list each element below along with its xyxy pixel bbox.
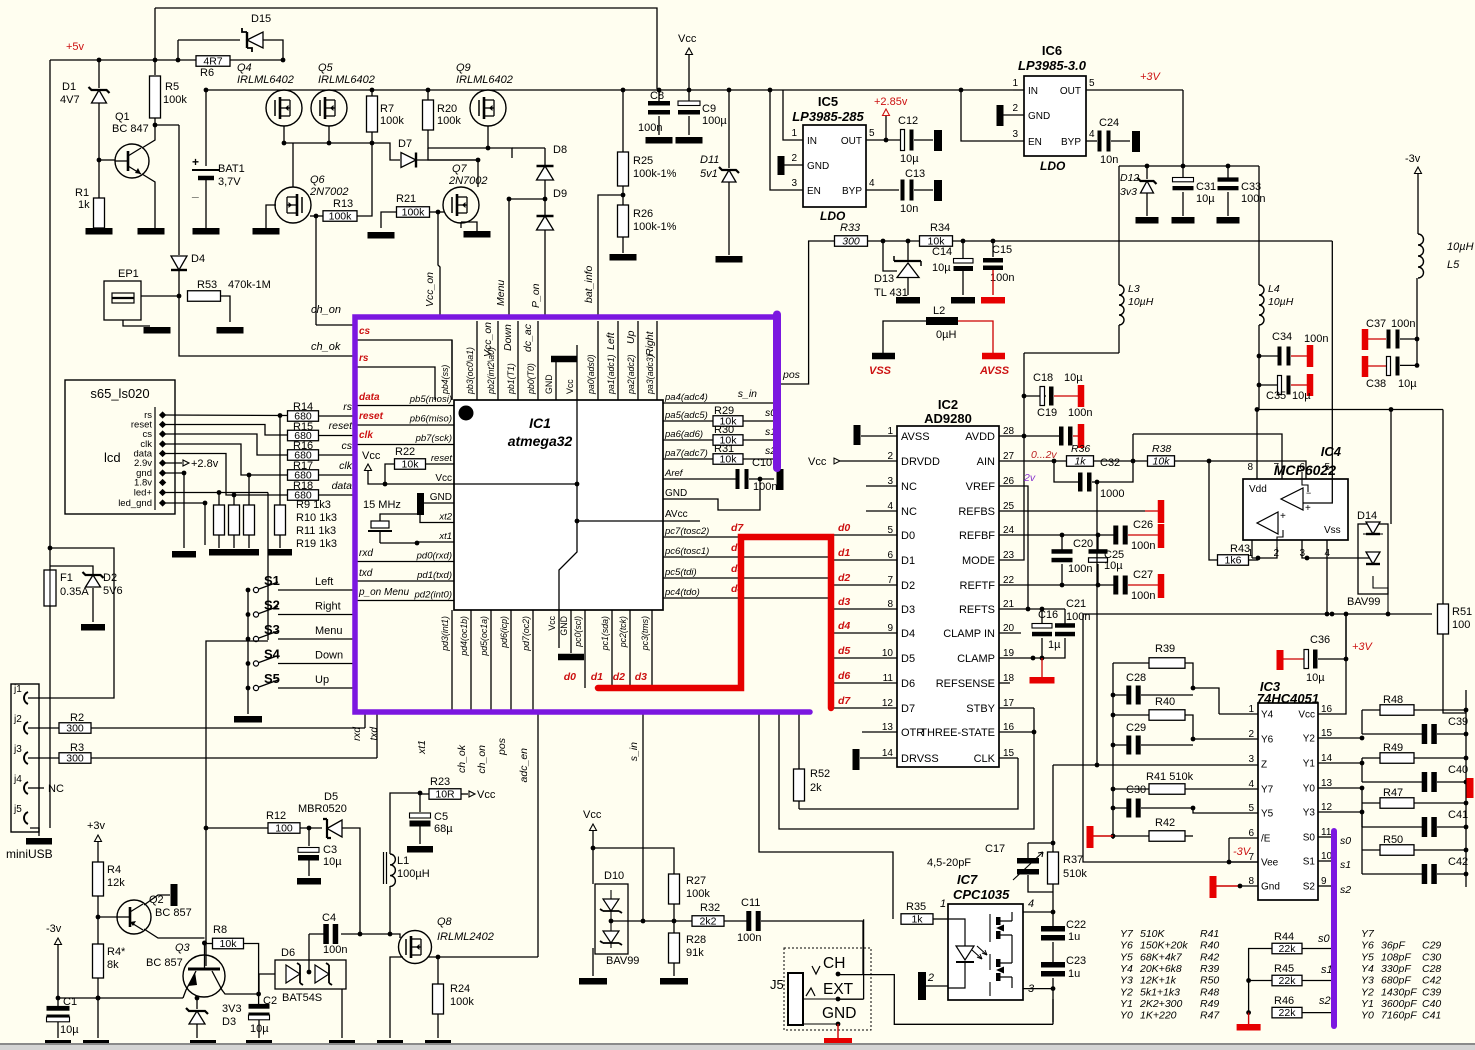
svg-text:Z: Z [1261, 760, 1267, 771]
svg-text:C41: C41 [1422, 1010, 1441, 1022]
svg-text:p_on Menu: p_on Menu [358, 587, 409, 598]
wire pb3 column Vcc_on [476, 321, 478, 400]
svg-text:D13: D13 [874, 273, 894, 285]
IC2 pin17 STBY [999, 707, 1034, 709]
svg-text:3V3: 3V3 [222, 1003, 242, 1015]
wire Z row to trimmer node [1052, 765, 1054, 843]
svg-text:74HC4051: 74HC4051 [1257, 691, 1319, 706]
capacitor C18 10u [1024, 395, 1046, 397]
svg-text:F1: F1 [60, 572, 73, 584]
svg-text:1K+220: 1K+220 [1140, 1010, 1177, 1022]
svg-text:reset: reset [329, 420, 353, 432]
wire adc_en riser to STBY [779, 708, 1034, 829]
wire R49/C40 node [1362, 757, 1380, 759]
svg-text:2k: 2k [810, 782, 822, 794]
svg-text:1k: 1k [78, 199, 90, 211]
wire switch common [247, 590, 249, 714]
wire L1 to R23 node [389, 886, 391, 934]
wire d2 to IC2 [831, 584, 897, 586]
wire dc_ac riser [759, 713, 893, 919]
ground D6 [329, 1040, 355, 1047]
svg-text:xt2: xt2 [438, 512, 452, 523]
wire xt1/R52 to CLK [799, 758, 1018, 809]
IC6 pin5 OUT +3V [1086, 89, 1183, 91]
svg-text:10n: 10n [1100, 154, 1118, 166]
svg-text:12K+1k: 12K+1k [1140, 975, 1177, 987]
svg-text:NC: NC [901, 481, 917, 493]
resistor R2 300 from j2 [28, 727, 59, 729]
wire Q9 node down Menu/D8 [428, 148, 478, 160]
IC1 atmega32 box [454, 400, 663, 610]
svg-text:pa5(adc5): pa5(adc5) [664, 410, 708, 421]
wire Vee pin7 [1229, 861, 1258, 863]
wire IC3 S0 pin11 [1318, 836, 1334, 838]
svg-text:4V7: 4V7 [60, 94, 80, 106]
wire Vcc_on from R21 node [438, 212, 440, 317]
wire j1 to F1 node [28, 548, 114, 698]
svg-text:DRVSS: DRVSS [901, 753, 939, 765]
svg-text:data: data [332, 480, 353, 492]
svg-text:pa3(adc3): pa3(adc3) [645, 354, 655, 395]
svg-text:pb0(T0): pb0(T0) [526, 363, 536, 395]
wire AVDD rail riser [1023, 343, 1025, 345]
wire pd6 column pos [510, 610, 512, 712]
svg-text:R24: R24 [450, 983, 470, 995]
ground C1 [45, 1040, 71, 1047]
svg-text:10µ: 10µ [932, 262, 951, 274]
svg-text:R9 1k3: R9 1k3 [296, 499, 331, 511]
svg-text:R21: R21 [396, 193, 416, 205]
resistor R26 100k-1% [618, 205, 629, 237]
ground R21 [368, 232, 395, 239]
svg-text:+: + [1305, 503, 1311, 514]
wire Q3 emitter rail to D6 [259, 974, 275, 994]
bar GND pin IC1 left [417, 493, 424, 515]
wire to IC4 pin7 feedback [1133, 434, 1282, 479]
inductor L5 10uH [1418, 234, 1424, 278]
red bar C27 [1158, 574, 1165, 598]
svg-text:R4*: R4* [107, 946, 126, 958]
svg-text:MBR0520: MBR0520 [298, 803, 347, 815]
svg-text:Y3: Y3 [1120, 975, 1133, 987]
svg-text:AD9280: AD9280 [924, 411, 972, 426]
svg-text:2v: 2v [1023, 472, 1036, 484]
wire Z row [1053, 764, 1258, 766]
svg-text:R41: R41 [1200, 928, 1219, 940]
svg-text:rs: rs [343, 401, 352, 413]
svg-text:led_gnd: led_gnd [118, 498, 152, 509]
svg-text:s1: s1 [1321, 964, 1333, 976]
svg-text:5k1+1k3: 5k1+1k3 [1140, 986, 1180, 998]
svg-text:2N7002: 2N7002 [309, 186, 349, 198]
svg-text:5: 5 [869, 128, 875, 139]
svg-text:dc_ac: dc_ac [522, 323, 534, 352]
svg-text:12k: 12k [107, 877, 125, 889]
svg-text:100k: 100k [380, 115, 404, 127]
wire pd5 column ch_on [490, 610, 492, 712]
svg-text:10µ: 10µ [1306, 672, 1325, 684]
svg-text:CPC1035: CPC1035 [953, 887, 1010, 902]
svg-text:10µ: 10µ [1104, 560, 1123, 572]
svg-text:ch_on: ch_on [311, 304, 341, 316]
svg-text:pd7(oc2): pd7(oc2) [521, 616, 531, 652]
svg-text:pc5(tdi): pc5(tdi) [664, 567, 697, 578]
svg-text:100n: 100n [323, 944, 347, 956]
svg-text:L4: L4 [1268, 283, 1280, 295]
svg-text:Vss: Vss [1324, 525, 1341, 536]
svg-text:1k: 1k [1074, 456, 1086, 468]
svg-text:Y5: Y5 [1261, 809, 1274, 820]
svg-text:D1: D1 [62, 81, 76, 93]
svg-text:Gnd: Gnd [1261, 882, 1280, 893]
svg-text:4,5-20pF: 4,5-20pF [927, 857, 971, 869]
svg-text:txd: txd [369, 727, 380, 741]
bar GND bottom of IC1 [570, 610, 572, 653]
svg-text:68K+4k7: 68K+4k7 [1140, 951, 1183, 963]
svg-text:pa1(adc1): pa1(adc1) [606, 354, 616, 395]
svg-text:LP3985-3.0: LP3985-3.0 [1018, 58, 1087, 73]
svg-text:0.35A: 0.35A [60, 586, 89, 598]
inductor L4 10uH [1258, 166, 1260, 285]
resistor R20 100k [423, 100, 434, 130]
svg-text:IRLML6402: IRLML6402 [237, 74, 294, 86]
wire IC3 Y5 pin5 [1193, 808, 1258, 813]
svg-text:Vcc_on: Vcc_on [482, 322, 494, 357]
wire lcd led+ [165, 492, 268, 494]
junction D1/R1/Q1 base [97, 158, 102, 163]
svg-text:j5: j5 [13, 804, 22, 815]
svg-text:MODE: MODE [962, 555, 995, 567]
svg-text:D14: D14 [1357, 510, 1377, 522]
svg-text:D0: D0 [901, 530, 915, 542]
svg-text:C39: C39 [1422, 986, 1441, 998]
ground switches [234, 716, 262, 723]
svg-text:C10: C10 [752, 457, 772, 469]
svg-text:R38: R38 [1152, 443, 1171, 455]
wire pa1 column Left [617, 321, 619, 400]
svg-text:Down: Down [315, 650, 343, 662]
svg-text:IC7: IC7 [957, 872, 978, 887]
bar cap C6 to gnd [537, 512, 544, 533]
svg-text:REFBF: REFBF [959, 530, 995, 542]
svg-text:R39: R39 [1200, 963, 1219, 975]
svg-text:d7: d7 [838, 695, 851, 707]
svg-text:D7: D7 [901, 703, 915, 715]
svg-text:Vcc: Vcc [678, 33, 697, 45]
wire rxd column [364, 712, 366, 728]
svg-text:Q5: Q5 [318, 62, 334, 74]
ground C5 [407, 846, 433, 853]
resistor R3 300 from j3 [28, 757, 59, 759]
wire pc5 row d5 [663, 577, 831, 579]
svg-text:j3: j3 [13, 744, 22, 755]
svg-text:3v3: 3v3 [1120, 186, 1137, 198]
ground R19 [268, 549, 292, 556]
svg-text:IRLML2402: IRLML2402 [437, 931, 494, 943]
svg-text:pb7(sck): pb7(sck) [415, 433, 452, 444]
svg-text:C24: C24 [1099, 117, 1119, 129]
svg-text:d6: d6 [838, 670, 850, 682]
wire Vcc rail to IC6 IN [1013, 89, 1024, 91]
svg-text:d3: d3 [838, 596, 850, 608]
svg-text:R22: R22 [395, 446, 415, 458]
wire pa4 row s_in [663, 402, 779, 404]
svg-text:pc0(scl): pc0(scl) [573, 616, 583, 648]
ground R24 [425, 1040, 451, 1047]
resistor R37 510k [1048, 852, 1059, 884]
wire rxd row [357, 561, 454, 563]
svg-text:7: 7 [1273, 462, 1279, 473]
svg-text:IC1: IC1 [529, 415, 551, 431]
svg-text:j1: j1 [13, 684, 22, 695]
red ground C15 [981, 297, 1005, 304]
red bar AVSS [982, 353, 1005, 360]
svg-text:R49: R49 [1200, 998, 1219, 1010]
svg-text:CLAMP: CLAMP [957, 653, 995, 665]
svg-text:C21: C21 [1066, 598, 1086, 610]
svg-text:ch_on: ch_on [476, 745, 488, 774]
ground D10 [579, 978, 607, 985]
IC2 pin4 NC stub [866, 510, 897, 512]
svg-text:OUT: OUT [841, 136, 862, 147]
bar IC7 pin2 [918, 972, 926, 1000]
wire IC3 Y7 pin4 [1185, 788, 1258, 790]
svg-text:IC4: IC4 [1321, 444, 1342, 459]
svg-text:8: 8 [1247, 462, 1253, 473]
svg-text:C12: C12 [898, 115, 918, 127]
svg-text:BAV99: BAV99 [606, 955, 639, 967]
wire pc2 column d2 [629, 610, 631, 688]
bar C12 gnd [934, 130, 942, 151]
ground R28 [660, 978, 688, 985]
svg-text:2: 2 [1012, 103, 1018, 114]
bar C10 right [777, 469, 784, 490]
resistor R25 100k-1% [618, 152, 629, 186]
wire clk row pb7(sck) [357, 444, 454, 446]
svg-text:reset: reset [359, 411, 384, 422]
svg-text:R5: R5 [165, 81, 179, 93]
wire pos net to R33 [779, 241, 834, 384]
svg-text:10µ: 10µ [1064, 372, 1083, 384]
svg-text:pc7(tosc2): pc7(tosc2) [664, 526, 709, 537]
wire lcd clk to R17 [165, 444, 288, 475]
wire AVDD node down [999, 353, 1024, 560]
svg-text:d2: d2 [838, 572, 850, 584]
svg-text:cs: cs [342, 440, 353, 452]
svg-text:D9: D9 [553, 188, 567, 200]
svg-text:C9: C9 [702, 103, 716, 115]
red bar C38 [1362, 356, 1369, 377]
svg-text:GND: GND [559, 616, 569, 636]
svg-text:1: 1 [791, 128, 797, 139]
red ground R44-R46 [1237, 1024, 1261, 1031]
svg-text:-3V: -3V [1233, 846, 1252, 858]
svg-text:+5v: +5v [66, 41, 85, 53]
wire AVDD rail from L3 [1024, 352, 1119, 354]
wire d6 to IC2 [831, 682, 897, 684]
wire P_on column [544, 230, 546, 317]
svg-text:LP3985-285: LP3985-285 [792, 109, 864, 124]
svg-text:d0: d0 [838, 522, 850, 534]
svg-text:68µ: 68µ [434, 823, 453, 835]
svg-text:d1: d1 [591, 671, 603, 683]
wire +3V down to distribution rail [1182, 90, 1184, 166]
svg-text:NC: NC [48, 783, 64, 795]
ground under Q6 [253, 228, 280, 235]
wire Aref row to C10 [663, 478, 736, 480]
svg-text:10n: 10n [900, 203, 918, 215]
svg-text:P_on: P_on [530, 283, 542, 308]
ground R4* [83, 1040, 109, 1047]
wire d1 to IC2 [831, 559, 897, 561]
label NC j4 [28, 787, 44, 789]
ground under R1 [86, 228, 113, 235]
svg-text:C38: C38 [1366, 378, 1386, 390]
svg-text:R19 1k3: R19 1k3 [296, 538, 337, 550]
svg-text:Y2: Y2 [1361, 986, 1374, 998]
svg-text:Vcc: Vcc [547, 615, 557, 630]
wire IC3 Y6 pin2 [1193, 738, 1258, 740]
red bar C34 [1307, 345, 1314, 367]
svg-text:22k: 22k [1279, 975, 1297, 987]
svg-text:C33: C33 [1241, 181, 1261, 193]
IC7 CPC1035 box [948, 904, 1023, 1000]
svg-text:1k: 1k [911, 914, 923, 926]
svg-text:C14: C14 [932, 246, 952, 258]
svg-text:Y7: Y7 [1261, 785, 1274, 796]
svg-text:pb5(mosi): pb5(mosi) [409, 394, 452, 405]
wire cs row [357, 340, 452, 400]
svg-text:pd5(oc1a): pd5(oc1a) [479, 616, 489, 657]
bar GND top of IC1 [551, 356, 577, 363]
svg-text:10µ: 10µ [1196, 193, 1215, 205]
svg-text:150K+20k: 150K+20k [1140, 940, 1188, 952]
wire top feed to Vcc rail [155, 8, 657, 89]
wire Z to C32 node riser [1096, 482, 1098, 765]
resistor R5 100k [150, 76, 161, 118]
svg-text:pc3(tms): pc3(tms) [640, 616, 650, 651]
svg-text:6: 6 [1299, 462, 1305, 473]
svg-text:EN: EN [807, 186, 821, 197]
wire C11 to EXT [863, 919, 865, 999]
IC3 Vcc riser from C36 [1345, 614, 1347, 659]
svg-text:C18: C18 [1033, 372, 1053, 384]
svg-text:R42: R42 [1200, 951, 1219, 963]
svg-text:R32: R32 [700, 902, 720, 914]
wire -3V bottom rail [1083, 613, 1432, 615]
svg-text:_: _ [191, 185, 199, 199]
svg-text:2k2: 2k2 [700, 916, 717, 928]
wire Vdd horizontal rail [1257, 409, 1443, 411]
svg-text:D4: D4 [191, 253, 205, 265]
svg-text:pa6(ad6): pa6(ad6) [664, 429, 703, 440]
svg-text:0...2v: 0...2v [1031, 449, 1057, 461]
ground EP1 [144, 327, 171, 334]
svg-text:Aref: Aref [664, 468, 684, 479]
svg-text:pc2(tck): pc2(tck) [618, 616, 628, 648]
power +2.8v at lcd 2.9v pin [165, 462, 182, 464]
svg-text:C19: C19 [1037, 407, 1057, 419]
svg-text:pa0(ads0): pa0(ads0) [586, 354, 596, 395]
svg-text:C3: C3 [323, 844, 337, 856]
svg-text:Vcc: Vcc [1298, 710, 1315, 721]
svg-text:R33: R33 [840, 222, 861, 234]
svg-text:pc1(sda): pc1(sda) [600, 616, 610, 651]
svg-text:CLAMP IN: CLAMP IN [943, 628, 995, 640]
wire d3 to IC2 [831, 608, 897, 610]
ground C2 [246, 1040, 272, 1047]
IC2 pin3 NC stub [866, 485, 897, 487]
ground R53 [217, 327, 244, 334]
svg-text:D2: D2 [901, 580, 915, 592]
svg-text:pb4(ss): pb4(ss) [440, 365, 450, 395]
svg-text:4R7: 4R7 [203, 56, 222, 68]
capacitor C5 68u [419, 794, 421, 812]
svg-text:300: 300 [66, 723, 84, 735]
svg-text:pc6(tosc1): pc6(tosc1) [664, 546, 709, 557]
capacitor C31 10u [1182, 166, 1184, 180]
svg-text:10µH: 10µH [1268, 296, 1294, 308]
label s_in column below [642, 712, 644, 921]
svg-text:R6: R6 [200, 67, 214, 79]
svg-text:Y4: Y4 [1120, 963, 1133, 975]
svg-text:J5: J5 [770, 977, 784, 992]
IC4 pin4 Vss riser [1326, 540, 1328, 614]
svg-text:xt1: xt1 [416, 740, 428, 755]
svg-text:AVDD: AVDD [965, 431, 995, 443]
svg-text:5: 5 [1089, 78, 1095, 89]
svg-text:IC6: IC6 [1042, 43, 1062, 58]
svg-text:100k: 100k [163, 94, 187, 106]
svg-text:Y1: Y1 [1361, 998, 1374, 1010]
IC4 pin8 Vdd riser [1256, 410, 1258, 480]
svg-text:100k: 100k [329, 211, 353, 223]
svg-text:Y1: Y1 [1120, 998, 1133, 1010]
IC2 pin27 AIN [999, 460, 1067, 462]
svg-text:10k: 10k [1153, 456, 1171, 468]
ground C14 [951, 297, 975, 304]
svg-text:rs: rs [359, 353, 369, 364]
svg-text:ch_ok: ch_ok [311, 341, 341, 353]
capacitor C10 100n [736, 469, 740, 489]
ground under C9 [676, 137, 703, 144]
ground lcd gnd [172, 551, 196, 558]
svg-text:510K: 510K [1140, 928, 1166, 940]
wire R34 right to C14/C15 [953, 240, 1332, 242]
svg-text:CH: CH [823, 955, 845, 972]
IC1 pin1 dot [459, 406, 474, 421]
svg-text:BAV99: BAV99 [1347, 596, 1380, 608]
svg-text:36pF: 36pF [1381, 940, 1406, 952]
junction D8/D9 mid to Menu [543, 197, 548, 202]
svg-text:R23: R23 [430, 776, 450, 788]
ground miniUSB shield [30, 828, 39, 836]
capacitor C23 1u [1041, 962, 1065, 968]
svg-text:330pF: 330pF [1381, 963, 1411, 975]
resistor R51 100 [1438, 604, 1449, 634]
inductor L1 100uH [390, 854, 395, 886]
svg-text:R53: R53 [197, 279, 217, 291]
IC7 output switches [989, 914, 991, 996]
svg-text:10µH: 10µH [1447, 241, 1474, 253]
svg-text:C17: C17 [985, 843, 1005, 855]
junction +5v/R5 column [153, 58, 158, 63]
ground C33 [1217, 217, 1240, 224]
bar C24 gnd [1132, 131, 1140, 152]
svg-text:R37: R37 [1063, 854, 1083, 866]
wire to Q7 drain [477, 160, 479, 187]
ground under Q1 [138, 228, 165, 235]
